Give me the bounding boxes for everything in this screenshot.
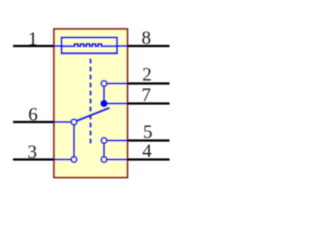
pin number 4: [142, 141, 152, 162]
svg-text:7: 7: [142, 85, 152, 106]
wire pin 6: [13, 121, 54, 123]
wire pin2 contact to pin7 contact: [103, 84, 105, 104]
pin number 7: [142, 85, 152, 106]
pin number 5: [143, 122, 153, 143]
wire pin5 contact to box edge: [104, 140, 127, 142]
wire pin7 contact to box edge: [104, 103, 127, 105]
pin number 3: [28, 142, 38, 163]
wire pin 3: [13, 158, 54, 160]
contact pin7 (filled): [100, 100, 108, 108]
wire pin 8: [127, 45, 169, 47]
contact pin5: [101, 138, 107, 144]
wire pin5 contact to pin4 contact: [103, 141, 105, 160]
wire pin 7: [127, 102, 169, 104]
pin number 1: [28, 29, 38, 50]
wire coil stub right: [117, 45, 127, 47]
svg-text:2: 2: [142, 65, 152, 86]
contact pin3: [71, 157, 77, 163]
svg-text:5: 5: [143, 122, 153, 143]
wire pivot to pin3 contact: [73, 122, 75, 160]
svg-text:4: 4: [142, 141, 152, 162]
pin number 6: [28, 105, 38, 126]
wire pin 3 to contact: [54, 159, 74, 161]
wire pin4 contact to box edge: [104, 159, 127, 161]
wire pin2 contact to box edge: [104, 83, 127, 85]
coil winding: [62, 44, 118, 46]
coil box K1: [62, 38, 118, 54]
wire pin 1: [13, 45, 54, 47]
svg-text:6: 6: [28, 105, 38, 126]
pivot contact pin6: [71, 119, 77, 125]
svg-text:1: 1: [28, 29, 38, 50]
pin number 8: [142, 28, 152, 49]
wire pin 4: [127, 158, 169, 160]
armature (switch blade): [77, 108, 110, 121]
relay body outline: [54, 29, 127, 178]
wire coil stub left: [54, 45, 62, 47]
mechanical link (dashed): [89, 59, 91, 145]
svg-text:3: 3: [28, 142, 38, 163]
contact pin4: [101, 157, 107, 163]
wire pin 5: [127, 139, 169, 141]
contact pin2: [101, 81, 107, 87]
wire pin 6 to pivot: [54, 121, 74, 123]
pin number 2: [142, 65, 152, 86]
wire pin 2: [127, 82, 169, 84]
svg-text:8: 8: [142, 28, 152, 49]
